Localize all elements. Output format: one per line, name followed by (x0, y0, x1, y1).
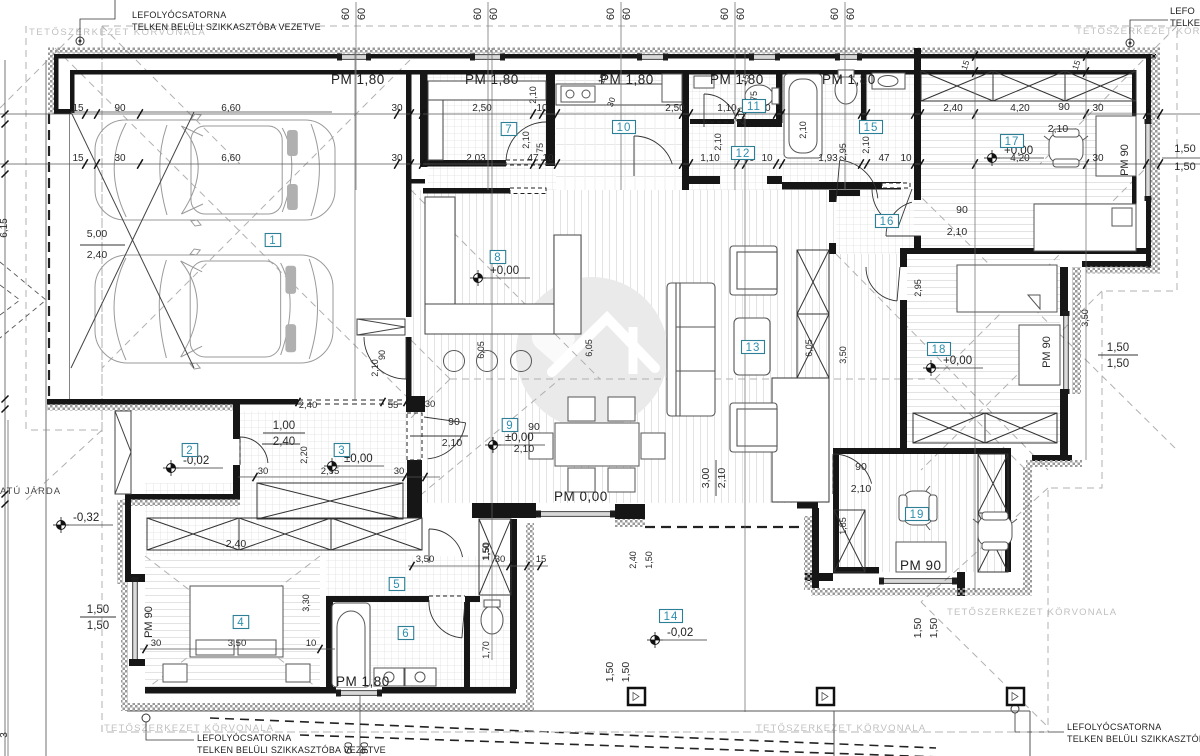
svg-text:3,50: 3,50 (1080, 309, 1090, 327)
svg-text:TELKEN BELÜLI SZIKKASZTÓBA VEZ: TELKEN BELÜLI SZIKKASZTÓBA VEZETVE (197, 745, 386, 755)
svg-text:+0,00: +0,00 (943, 355, 972, 367)
svg-text:1,93: 1,93 (818, 153, 838, 164)
svg-text:TELKE: TELKE (1170, 18, 1200, 29)
svg-text:18: 18 (932, 344, 947, 356)
svg-text:1,50: 1,50 (1174, 143, 1195, 155)
svg-text:PM 0,00: PM 0,00 (554, 489, 608, 504)
svg-text:60: 60 (340, 8, 352, 20)
svg-text:1,50: 1,50 (87, 604, 109, 616)
svg-text:10: 10 (761, 153, 773, 164)
svg-text:60: 60 (472, 8, 484, 20)
svg-text:2,10: 2,10 (947, 226, 968, 238)
svg-text:3,50: 3,50 (416, 554, 435, 565)
svg-text:30: 30 (391, 153, 403, 164)
svg-text:PM 90: PM 90 (1119, 144, 1131, 176)
svg-text:PM 1,80: PM 1,80 (822, 72, 876, 87)
svg-text:2,40: 2,40 (273, 436, 295, 448)
svg-text:30: 30 (495, 554, 506, 565)
svg-text:2,40: 2,40 (226, 538, 247, 550)
svg-text:±0,00: ±0,00 (505, 432, 534, 444)
svg-text:30: 30 (425, 399, 436, 410)
svg-text:1,85: 1,85 (838, 517, 848, 535)
svg-text:60: 60 (343, 742, 355, 754)
svg-text:60: 60 (488, 8, 500, 20)
svg-text:47: 47 (527, 153, 539, 164)
svg-text:LEFO: LEFO (1170, 6, 1195, 17)
svg-text:30: 30 (1092, 103, 1104, 114)
svg-text:1,10: 1,10 (700, 153, 720, 164)
svg-text:2,95: 2,95 (913, 279, 923, 297)
svg-text:1,50: 1,50 (87, 620, 109, 632)
svg-text:10: 10 (542, 153, 554, 164)
svg-text:2,40: 2,40 (87, 249, 108, 261)
svg-text:PM 1,80: PM 1,80 (331, 72, 385, 87)
svg-text:2,10: 2,10 (713, 133, 723, 151)
svg-text:2,40: 2,40 (943, 103, 963, 114)
svg-text:16: 16 (880, 216, 895, 228)
svg-text:2,10: 2,10 (370, 359, 380, 377)
svg-text:+0,00: +0,00 (490, 265, 519, 277)
svg-text:90: 90 (956, 204, 968, 216)
svg-text:3,30: 3,30 (301, 594, 311, 612)
svg-text:8: 8 (494, 252, 501, 264)
svg-text:15: 15 (72, 153, 84, 164)
svg-text:30: 30 (394, 466, 405, 477)
svg-text:LEFOLYÓCSATORNA: LEFOLYÓCSATORNA (197, 733, 292, 743)
svg-text:60: 60 (829, 8, 841, 20)
svg-text:3,50: 3,50 (838, 346, 848, 364)
svg-text:1,50: 1,50 (1107, 342, 1129, 354)
svg-text:6,05: 6,05 (804, 339, 814, 357)
svg-text:6: 6 (402, 628, 409, 640)
svg-text:2,10: 2,10 (861, 136, 871, 154)
svg-text:3: 3 (0, 732, 10, 738)
svg-text:12: 12 (736, 148, 751, 160)
svg-text:PM 1,80: PM 1,80 (336, 674, 390, 689)
svg-text:2,50: 2,50 (665, 103, 685, 114)
svg-text:1,50: 1,50 (481, 542, 491, 560)
svg-text:2,20: 2,20 (299, 446, 309, 464)
svg-text:2,95: 2,95 (838, 143, 848, 161)
svg-text:1,50: 1,50 (620, 662, 632, 683)
svg-text:2,10: 2,10 (716, 468, 728, 489)
svg-text:60: 60 (621, 8, 633, 20)
svg-text:LEFOLYÓCSATORNA: LEFOLYÓCSATORNA (132, 10, 227, 20)
svg-text:60: 60 (845, 8, 857, 20)
svg-text:90: 90 (114, 103, 126, 114)
svg-text:30: 30 (391, 103, 403, 114)
svg-text:1,50: 1,50 (644, 551, 654, 569)
svg-text:10: 10 (306, 638, 317, 649)
svg-text:2,40: 2,40 (628, 551, 638, 569)
svg-text:1,00: 1,00 (273, 420, 295, 432)
svg-text:3,50: 3,50 (228, 638, 247, 649)
svg-text:60: 60 (719, 8, 731, 20)
svg-text:10: 10 (536, 103, 548, 114)
svg-text:PM 1,80: PM 1,80 (465, 72, 519, 87)
svg-text:2,10: 2,10 (1048, 123, 1069, 135)
svg-text:6,15: 6,15 (0, 218, 10, 238)
svg-text:2,10: 2,10 (528, 86, 538, 104)
svg-text:47: 47 (878, 153, 890, 164)
svg-text:2,10: 2,10 (442, 437, 463, 449)
svg-text:15: 15 (536, 554, 547, 565)
svg-text:1,70: 1,70 (481, 641, 491, 659)
svg-text:PM 1,80: PM 1,80 (710, 72, 764, 87)
svg-text:1,50: 1,50 (1107, 358, 1129, 370)
svg-text:55: 55 (388, 400, 399, 411)
svg-text:5,00: 5,00 (87, 228, 108, 240)
svg-text:9: 9 (506, 420, 513, 432)
svg-text:15: 15 (864, 122, 879, 134)
svg-text:6,05: 6,05 (584, 339, 594, 357)
svg-text:2,10: 2,10 (798, 121, 808, 139)
svg-text:90: 90 (359, 742, 371, 754)
svg-text:1,50: 1,50 (928, 618, 940, 639)
svg-text:PM 1,80: PM 1,80 (600, 72, 654, 87)
svg-text:6,60: 6,60 (221, 153, 241, 164)
svg-text:2,50: 2,50 (472, 103, 492, 114)
svg-text:14: 14 (664, 611, 679, 623)
svg-text:17: 17 (1005, 136, 1020, 148)
svg-text:1,10: 1,10 (717, 103, 737, 114)
svg-text:ATÚ JÁRDA: ATÚ JÁRDA (0, 486, 61, 497)
svg-text:TELKEN BELÜLI SZIKKASZTÓBA VEZ: TELKEN BELÜLI SZIKKASZTÓBA VEZETV (1067, 734, 1200, 744)
svg-text:90: 90 (448, 416, 460, 428)
svg-text:2,10: 2,10 (851, 483, 872, 495)
svg-text:7: 7 (505, 124, 512, 136)
svg-text:-0,02: -0,02 (667, 627, 693, 639)
svg-text:15: 15 (72, 103, 84, 114)
svg-text:PM 90: PM 90 (900, 558, 942, 573)
svg-text:2: 2 (186, 445, 193, 457)
svg-text:13: 13 (746, 342, 761, 354)
svg-text:2,10: 2,10 (521, 131, 531, 149)
svg-text:30: 30 (151, 638, 162, 649)
svg-text:6,05: 6,05 (476, 341, 486, 359)
svg-text:4: 4 (237, 617, 244, 629)
svg-text:6,60: 6,60 (221, 103, 241, 114)
svg-text:1: 1 (269, 235, 276, 247)
svg-text:2,40: 2,40 (299, 400, 318, 411)
svg-text:30: 30 (114, 153, 126, 164)
svg-text:19: 19 (910, 509, 925, 521)
svg-text:1,50: 1,50 (912, 618, 924, 639)
svg-text:75: 75 (535, 143, 545, 153)
svg-text:3: 3 (338, 445, 345, 457)
svg-text:60: 60 (735, 8, 747, 20)
svg-text:3,00: 3,00 (700, 468, 712, 489)
svg-text:90: 90 (1058, 101, 1070, 113)
svg-text:30: 30 (1092, 153, 1104, 164)
svg-text:10: 10 (900, 153, 912, 164)
svg-text:60: 60 (605, 8, 617, 20)
svg-text:11: 11 (747, 101, 761, 113)
svg-text:60: 60 (356, 8, 368, 20)
svg-text:LEFOLYÓCSATORNA: LEFOLYÓCSATORNA (1067, 722, 1162, 732)
svg-text:-0,32: -0,32 (73, 512, 99, 524)
svg-text:TELKEN BELÜLI SZIKKASZTÓBA VEZ: TELKEN BELÜLI SZIKKASZTÓBA VEZETVE (132, 22, 321, 32)
svg-text:10: 10 (617, 122, 632, 134)
svg-text:TETŐSZERKEZET KÖRVONALA: TETŐSZERKEZET KÖRVONALA (947, 607, 1117, 618)
svg-text:1,50: 1,50 (1174, 161, 1195, 173)
svg-text:1,50: 1,50 (604, 662, 616, 683)
svg-text:30: 30 (258, 466, 269, 477)
svg-text:PM 90: PM 90 (143, 606, 155, 638)
svg-text:2,03: 2,03 (466, 153, 486, 164)
svg-text:90: 90 (377, 350, 387, 360)
svg-text:5: 5 (393, 579, 400, 591)
svg-text:4,20: 4,20 (1010, 103, 1030, 114)
svg-text:PM 90: PM 90 (1041, 336, 1053, 368)
svg-text:90: 90 (855, 461, 867, 473)
